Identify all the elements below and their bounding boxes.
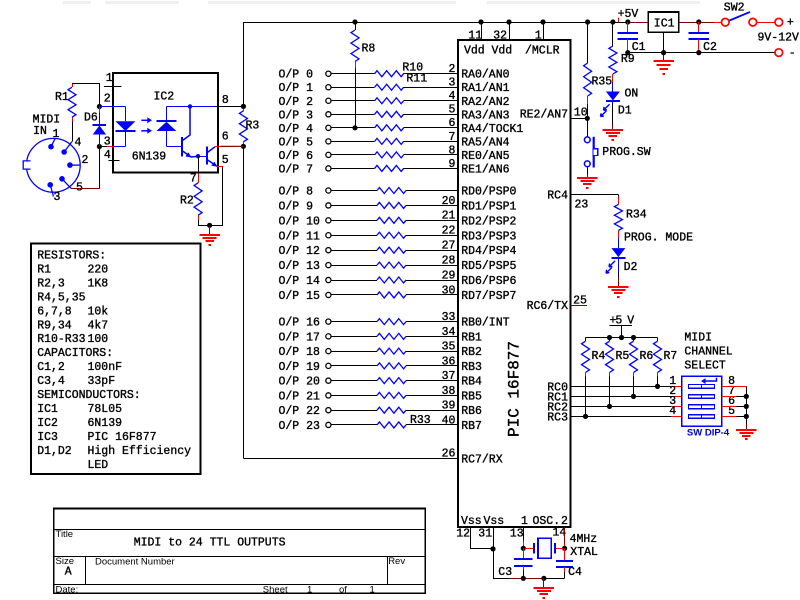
svg-text:IC2: IC2 <box>37 417 58 430</box>
svg-text:20: 20 <box>442 195 456 208</box>
svg-text:2: 2 <box>82 154 89 167</box>
svg-text:RD2/PSP2: RD2/PSP2 <box>461 215 516 228</box>
svg-text:R6: R6 <box>640 350 654 363</box>
svg-text:C3: C3 <box>498 566 512 579</box>
svg-text:Vss: Vss <box>461 515 482 528</box>
svg-text:RA4/TOCK1: RA4/TOCK1 <box>461 123 523 136</box>
svg-text:D1: D1 <box>618 105 632 118</box>
svg-text:RA1/AN1: RA1/AN1 <box>461 82 509 95</box>
svg-text:O/P 13: O/P 13 <box>279 260 321 273</box>
svg-text:O/P 2: O/P 2 <box>279 96 314 109</box>
svg-text:8: 8 <box>222 94 229 107</box>
svg-text:RB7: RB7 <box>461 420 482 433</box>
svg-text:XTAL: XTAL <box>570 546 598 559</box>
svg-text:34: 34 <box>442 326 456 339</box>
svg-text:R11: R11 <box>406 73 427 86</box>
svg-text:R9,34: R9,34 <box>37 319 72 332</box>
svg-text:RC6/TX: RC6/TX <box>527 300 569 313</box>
svg-text:R33: R33 <box>410 414 431 427</box>
svg-text:RB3: RB3 <box>461 361 482 374</box>
svg-text:SELECT: SELECT <box>684 360 726 373</box>
svg-text:O/P 16: O/P 16 <box>279 317 321 330</box>
svg-text:Title: Title <box>56 529 74 540</box>
svg-text:O/P 9: O/P 9 <box>279 200 314 213</box>
svg-text:RA2/AN2: RA2/AN2 <box>461 96 509 109</box>
svg-text:33: 33 <box>442 311 456 324</box>
svg-text:R8: R8 <box>362 43 376 56</box>
svg-text:PIC 16F877: PIC 16F877 <box>88 431 157 444</box>
svg-text:O/P 3: O/P 3 <box>279 109 314 122</box>
svg-text:78L05: 78L05 <box>88 403 123 416</box>
svg-text:O/P 15: O/P 15 <box>279 290 321 303</box>
svg-text:RD7/PSP7: RD7/PSP7 <box>461 290 516 303</box>
svg-text:5: 5 <box>222 154 229 167</box>
svg-text:RD0/PSP0: RD0/PSP0 <box>461 186 516 199</box>
svg-text:R5: R5 <box>616 350 630 363</box>
svg-text:27: 27 <box>442 240 456 253</box>
svg-text:O/P 12: O/P 12 <box>279 245 321 258</box>
svg-text:IN: IN <box>33 125 47 138</box>
svg-text:RB6: RB6 <box>461 405 482 418</box>
svg-text:Document Number: Document Number <box>95 557 175 568</box>
svg-text:29: 29 <box>442 269 456 282</box>
svg-text:C1,2: C1,2 <box>37 361 65 374</box>
svg-text:O/P 6: O/P 6 <box>279 150 314 163</box>
svg-text:39: 39 <box>442 400 456 413</box>
svg-text:40: 40 <box>442 414 456 427</box>
svg-text:RD1/PSP1: RD1/PSP1 <box>461 200 516 213</box>
svg-text:-: - <box>789 47 796 60</box>
svg-text:Date:: Date: <box>56 584 79 595</box>
svg-text:RB5: RB5 <box>461 390 482 403</box>
svg-text:23: 23 <box>575 199 589 212</box>
svg-text:R1: R1 <box>55 91 69 104</box>
svg-text:RD5/PSP5: RD5/PSP5 <box>461 260 516 273</box>
svg-text:4MHz: 4MHz <box>570 533 598 546</box>
svg-text:30: 30 <box>442 284 456 297</box>
svg-text:CAPACITORS:: CAPACITORS: <box>37 347 113 360</box>
svg-text:33pF: 33pF <box>88 375 116 388</box>
svg-text:6N139: 6N139 <box>88 417 123 430</box>
svg-text:D6: D6 <box>84 112 98 125</box>
svg-text:O/P 5: O/P 5 <box>279 136 314 149</box>
svg-text:7: 7 <box>190 173 197 186</box>
svg-text:R4: R4 <box>592 350 606 363</box>
svg-text:O/P 1: O/P 1 <box>279 82 314 95</box>
svg-text:O/P 0: O/P 0 <box>279 69 314 82</box>
svg-text:1: 1 <box>521 515 528 528</box>
svg-text:SW2: SW2 <box>724 2 745 15</box>
svg-text:RB2: RB2 <box>461 346 482 359</box>
svg-text:MIDI to 24 TTL OUTPUTS: MIDI to 24 TTL OUTPUTS <box>134 537 286 550</box>
svg-text:R3: R3 <box>246 120 260 133</box>
svg-text:3: 3 <box>54 191 61 204</box>
svg-text:RE1/AN6: RE1/AN6 <box>461 163 509 176</box>
svg-text:O/P 23: O/P 23 <box>279 420 321 433</box>
svg-text:22: 22 <box>442 225 456 238</box>
svg-text:220: 220 <box>88 263 109 276</box>
svg-text:+: + <box>787 17 794 30</box>
svg-text:O/P 10: O/P 10 <box>279 215 321 228</box>
svg-text:O/P 8: O/P 8 <box>279 186 314 199</box>
svg-text:RE0/AN5: RE0/AN5 <box>461 150 509 163</box>
svg-text:CHANNEL: CHANNEL <box>684 346 732 359</box>
svg-text:C4: C4 <box>568 566 582 579</box>
svg-text:O/P 11: O/P 11 <box>279 230 321 243</box>
svg-text:R34: R34 <box>626 209 647 222</box>
svg-text:SEMICONDUCTORS:: SEMICONDUCTORS: <box>37 389 141 402</box>
svg-text:RD6/PSP6: RD6/PSP6 <box>461 275 516 288</box>
svg-text:R1: R1 <box>37 263 51 276</box>
svg-text:37: 37 <box>442 370 456 383</box>
svg-text:26: 26 <box>442 448 456 461</box>
svg-text:1: 1 <box>370 584 375 595</box>
svg-text:10k: 10k <box>88 305 109 318</box>
svg-text:RB4: RB4 <box>461 376 482 389</box>
svg-text:1: 1 <box>53 128 60 141</box>
svg-text:C3,4: C3,4 <box>37 375 65 388</box>
svg-text:A: A <box>65 566 72 579</box>
svg-text:RE2/AN7: RE2/AN7 <box>520 108 568 121</box>
svg-text:LED: LED <box>88 459 109 472</box>
svg-text:RC3: RC3 <box>547 411 568 424</box>
svg-text:+5V: +5V <box>618 8 639 21</box>
svg-text:35: 35 <box>442 341 456 354</box>
svg-text:2: 2 <box>448 63 455 76</box>
svg-text:D2: D2 <box>624 261 638 274</box>
svg-text:9: 9 <box>448 158 455 171</box>
svg-text:O/P 17: O/P 17 <box>279 331 320 344</box>
svg-text:SW DIP-4: SW DIP-4 <box>687 427 730 438</box>
svg-text:2: 2 <box>104 93 111 106</box>
svg-text:R2: R2 <box>180 195 194 208</box>
svg-text:10: 10 <box>574 106 588 119</box>
svg-text:PROG. MODE: PROG. MODE <box>624 232 693 245</box>
svg-text:Vss: Vss <box>484 515 505 528</box>
svg-text:R7: R7 <box>664 350 678 363</box>
svg-text:RA5/AN4: RA5/AN4 <box>461 136 509 149</box>
svg-text:R35: R35 <box>592 76 613 89</box>
svg-text:5: 5 <box>448 104 455 117</box>
svg-text:Vdd: Vdd <box>464 45 485 58</box>
svg-text:RA0/AN0: RA0/AN0 <box>461 69 509 82</box>
svg-text:7: 7 <box>448 131 455 144</box>
svg-text:of: of <box>339 584 347 595</box>
svg-text:100: 100 <box>88 333 109 346</box>
svg-text:36: 36 <box>442 355 456 368</box>
svg-text:IC1: IC1 <box>654 17 675 30</box>
svg-text:1K8: 1K8 <box>88 277 109 290</box>
svg-text:8: 8 <box>448 144 455 157</box>
svg-text:PROG.SW: PROG.SW <box>602 146 650 159</box>
svg-text:O/P 21: O/P 21 <box>279 390 321 403</box>
svg-text:38: 38 <box>442 385 456 398</box>
svg-text:3: 3 <box>448 77 455 90</box>
svg-text:R10-R33: R10-R33 <box>37 333 85 346</box>
svg-text:RESISTORS:: RESISTORS: <box>37 250 106 263</box>
svg-text:O/P 14: O/P 14 <box>279 275 321 288</box>
svg-text:28: 28 <box>442 255 456 268</box>
svg-text:4: 4 <box>75 137 82 150</box>
svg-text:9V-12V: 9V-12V <box>758 32 800 45</box>
svg-text:4: 4 <box>669 405 676 418</box>
svg-text:4: 4 <box>104 149 111 162</box>
svg-text:31: 31 <box>478 528 492 541</box>
svg-text:6N139: 6N139 <box>132 151 167 164</box>
svg-text:IC3: IC3 <box>37 431 58 444</box>
svg-text:RB0/INT: RB0/INT <box>461 317 509 330</box>
svg-text:Sheet: Sheet <box>263 584 288 595</box>
svg-text:RC4: RC4 <box>547 190 568 203</box>
svg-text:21: 21 <box>442 210 456 223</box>
svg-text:O/P 7: O/P 7 <box>279 163 314 176</box>
svg-text:O/P 20: O/P 20 <box>279 376 321 389</box>
svg-text:High Efficiency: High Efficiency <box>88 445 192 458</box>
svg-text:O/P 22: O/P 22 <box>279 405 321 418</box>
svg-text:RB1: RB1 <box>461 331 482 344</box>
svg-text:IC2: IC2 <box>154 91 175 104</box>
svg-text:Vdd: Vdd <box>492 45 513 58</box>
svg-text:12: 12 <box>456 528 470 541</box>
svg-text:ON: ON <box>625 88 639 101</box>
svg-text:1: 1 <box>106 72 113 85</box>
svg-text:O/P 19: O/P 19 <box>279 361 321 374</box>
svg-text:100nF: 100nF <box>88 361 123 374</box>
svg-text:4k7: 4k7 <box>88 319 109 332</box>
svg-text:RD4/PSP4: RD4/PSP4 <box>461 245 516 258</box>
svg-text:4: 4 <box>448 90 455 103</box>
svg-text:R4,5,35: R4,5,35 <box>37 291 85 304</box>
svg-text:RD3/PSP3: RD3/PSP3 <box>461 230 516 243</box>
svg-text:O/P 18: O/P 18 <box>279 346 321 359</box>
svg-text:Rev: Rev <box>388 556 405 567</box>
svg-text:/MCLR: /MCLR <box>525 45 560 58</box>
svg-text:O/P 4: O/P 4 <box>279 123 314 136</box>
svg-text:13: 13 <box>510 528 524 541</box>
svg-text:6: 6 <box>222 131 229 144</box>
svg-text:25: 25 <box>573 294 587 307</box>
svg-text:PIC 16F877: PIC 16F877 <box>506 341 524 437</box>
svg-text:IC1: IC1 <box>37 403 58 416</box>
svg-text:6: 6 <box>448 117 455 130</box>
svg-text:RC7/RX: RC7/RX <box>461 453 503 466</box>
svg-text:6,7,8: 6,7,8 <box>37 305 72 318</box>
svg-text:R2,3: R2,3 <box>37 277 65 290</box>
svg-text:D1,D2: D1,D2 <box>37 445 72 458</box>
svg-text:MIDI: MIDI <box>684 332 712 345</box>
svg-text:1: 1 <box>307 584 312 595</box>
svg-text:RA3/AN3: RA3/AN3 <box>461 109 509 122</box>
